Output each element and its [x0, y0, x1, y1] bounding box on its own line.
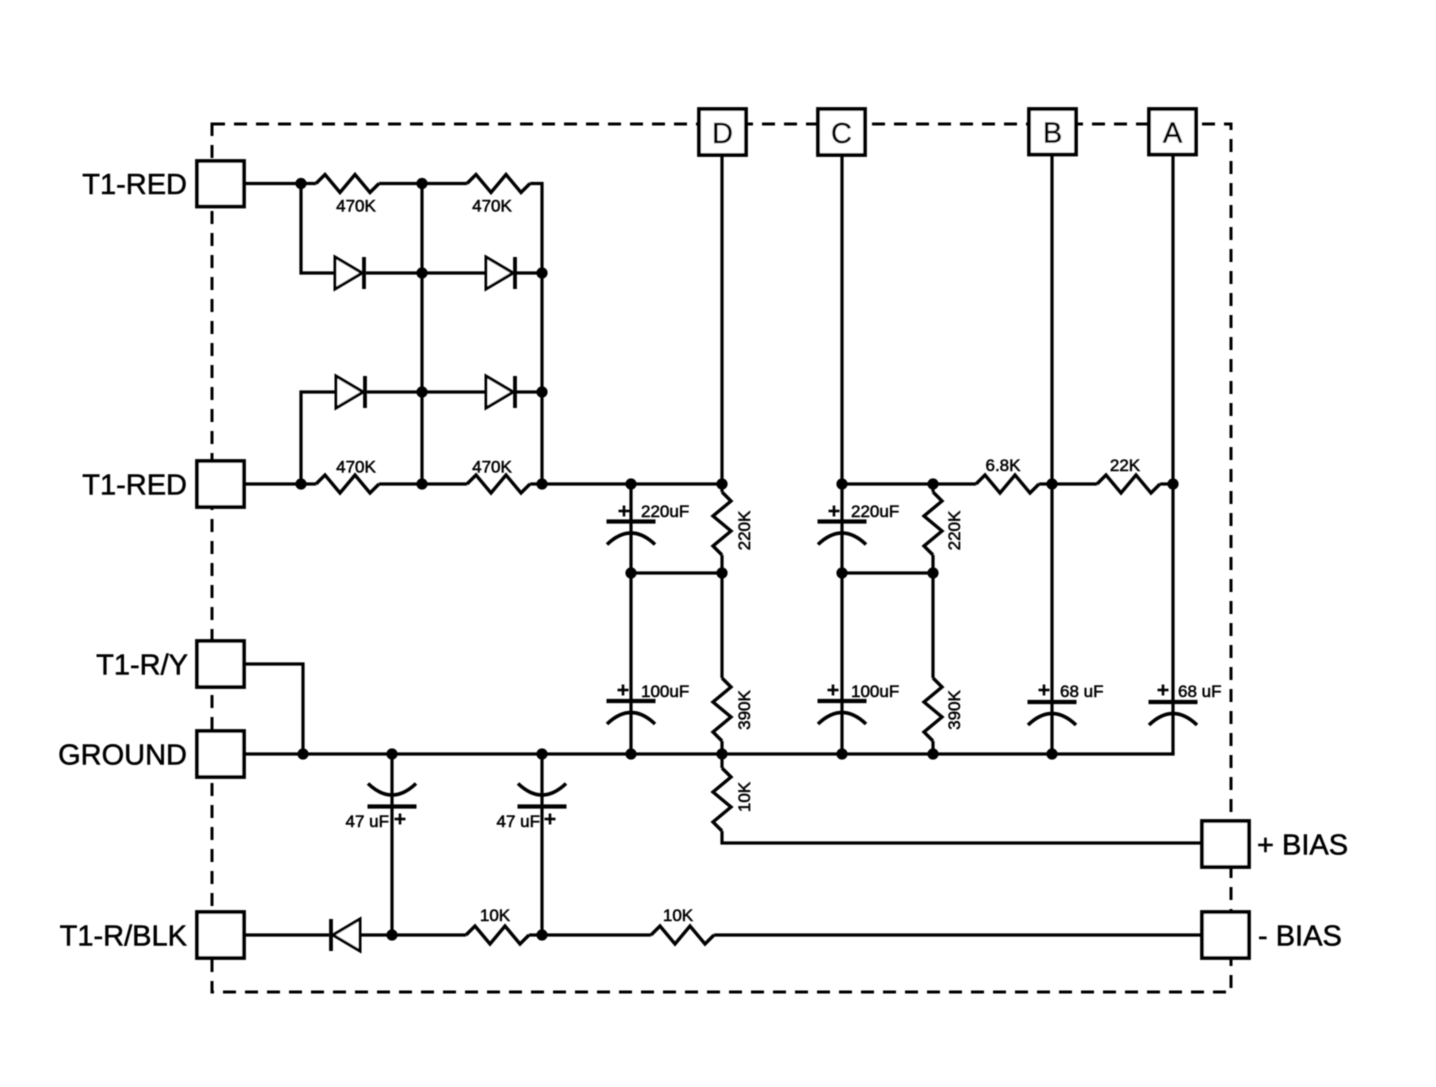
svg-text:47 uF: 47 uF [497, 812, 540, 831]
wire between 470K resistors top row [379, 182, 467, 185]
terminal box T1-RED 1 [197, 161, 244, 207]
svg-text:T1-RED: T1-RED [82, 470, 187, 502]
wire T1-R/BLK to diode [244, 933, 329, 936]
wire 10K top lead [720, 754, 723, 768]
capacitor C6 68uF [1149, 702, 1198, 725]
capacitor C3 100uF [607, 701, 656, 724]
terminal box - BIAS [1202, 912, 1249, 958]
wire diode row 2 middle [367, 390, 485, 393]
diode D2 [486, 257, 515, 289]
resistor R3 470K [316, 475, 379, 493]
wire 220K C column top [931, 484, 934, 492]
junction dots bias row [386, 929, 547, 940]
svg-text:D: D [712, 118, 733, 150]
wire node C to 220K [842, 482, 933, 485]
svg-text:B: B [1043, 118, 1062, 150]
svg-text:470K: 470K [472, 458, 512, 477]
terminal box B [1029, 109, 1076, 155]
svg-text:470K: 470K [336, 458, 376, 477]
wire 470K to right vertical bus [530, 184, 542, 485]
capacitor C8 47uF [518, 784, 567, 807]
diode D4 [486, 376, 515, 408]
svg-text:470K: 470K [472, 197, 512, 216]
wire 390K D bottom lead [720, 741, 723, 754]
terminal box T1-R/BLK [197, 912, 244, 958]
svg-text:220uF: 220uF [641, 502, 689, 521]
resistor R10 390K [924, 678, 942, 741]
svg-text:47 uF: 47 uF [346, 812, 389, 831]
diode D1 [335, 257, 364, 289]
svg-text:10K: 10K [480, 906, 511, 925]
wire 390K C bottom lead [931, 741, 934, 754]
svg-text:GROUND: GROUND [58, 740, 187, 772]
svg-text:- BIAS: - BIAS [1258, 921, 1342, 953]
capacitor C2 220uF [818, 522, 867, 545]
junction dots diode row 2 [416, 386, 547, 397]
plus sign C2 [829, 506, 840, 517]
terminal box D [699, 109, 746, 155]
capacitor C4 100uF [818, 701, 867, 724]
terminal box T1-R/Y [197, 641, 244, 687]
wire T1-R/Y to ground bus [244, 664, 303, 754]
svg-text:390K: 390K [735, 689, 754, 729]
wire C terminal vertical [840, 155, 843, 754]
dashed enclosure border [212, 124, 1231, 992]
wire 47uF 2 column [540, 754, 543, 935]
svg-text:22K: 22K [1110, 456, 1141, 475]
junction dots plate row [625, 567, 938, 578]
junction dots diode row 1 [416, 267, 547, 278]
plus sign C4 [828, 685, 839, 696]
svg-text:A: A [1163, 118, 1183, 150]
svg-text:470K: 470K [336, 197, 376, 216]
svg-text:100uF: 100uF [641, 682, 689, 701]
svg-text:220K: 220K [735, 510, 754, 550]
capacitor C1 220uF [607, 522, 656, 545]
junction dots top resistor row [295, 178, 427, 189]
svg-text:T1-RED: T1-RED [82, 169, 187, 201]
wire between 470K resistors row 2 [379, 482, 467, 485]
junction dots main row [295, 478, 1178, 489]
wire 470K row 2 to 220uF node [530, 482, 722, 485]
plus sign C3 [618, 685, 629, 696]
terminal box + BIAS [1202, 821, 1249, 867]
wire C 6.8K lead left [933, 482, 976, 485]
resistor R9 390K [713, 678, 731, 741]
plus sign C7 [395, 814, 406, 825]
wire 10K to 10K bottom row [529, 933, 651, 936]
wire node A1 to diode row 1 [301, 184, 335, 274]
plus sign C6 [1158, 685, 1169, 696]
terminal box T1-RED 2 [197, 461, 244, 507]
capacitor C5 68uF [1028, 702, 1077, 725]
wire bottom plates row D section [631, 571, 722, 574]
svg-text:100uF: 100uF [851, 682, 899, 701]
wire diode row 2 right [516, 390, 542, 393]
wire ground bus [244, 752, 1175, 755]
wire diode to 10K [360, 933, 466, 936]
diode D5 [331, 919, 360, 951]
wire 220K D bottom to node [720, 555, 723, 573]
resistor R13 10K [651, 926, 714, 944]
wire diode row 2 left corner [301, 392, 336, 484]
resistor R4 470K [467, 475, 530, 493]
svg-text:68 uF: 68 uF [1178, 682, 1221, 701]
svg-text:10K: 10K [663, 906, 694, 925]
plus sign C5 [1039, 685, 1050, 696]
terminal box C [818, 109, 865, 155]
wire B terminal vertical [1050, 155, 1053, 754]
resistor R8 22K [1097, 475, 1160, 493]
svg-text:6.8K: 6.8K [986, 456, 1022, 475]
svg-text:68 uF: 68 uF [1060, 682, 1103, 701]
terminal box A [1149, 109, 1196, 155]
resistor R11 10K [713, 768, 731, 831]
wire 390K D column [720, 573, 723, 678]
svg-text:C: C [831, 118, 852, 150]
svg-text:10K: 10K [735, 781, 754, 812]
wire 390K C column [931, 573, 934, 678]
resistor R5 220K [713, 492, 731, 555]
wire 10K to + BIAS [722, 831, 1202, 843]
wire A terminal vertical [1171, 155, 1174, 754]
svg-text:T1-R/BLK: T1-R/BLK [60, 921, 188, 953]
junction dots ground bus [297, 748, 1057, 759]
svg-text:T1-R/Y: T1-R/Y [96, 650, 188, 682]
wire middle vertical bus [420, 184, 423, 485]
capacitor C7 47uF [368, 784, 417, 807]
resistor R12 10K [466, 926, 529, 944]
wire 6.8K to B node [1039, 482, 1097, 485]
resistor R2 470K [467, 175, 530, 193]
wire T1-RED 2 to resistor [244, 482, 316, 485]
diode D3 [336, 376, 365, 408]
plus sign C8 [545, 814, 556, 825]
wire 10K to - BIAS [714, 933, 1202, 936]
plus sign C1 [619, 506, 630, 517]
svg-text:220K: 220K [945, 510, 964, 550]
wire 22K to A node [1160, 482, 1173, 485]
wire diode row 1 middle [366, 271, 485, 274]
wire 220K C bottom to node [931, 555, 934, 573]
svg-text:390K: 390K [945, 689, 964, 729]
wire diode row 1 right [516, 271, 542, 274]
svg-text:220uF: 220uF [851, 502, 899, 521]
resistor R1 470K [316, 175, 379, 193]
svg-text:+ BIAS: + BIAS [1257, 830, 1348, 862]
wire bottom plates row C section [842, 571, 933, 574]
terminal box GROUND [197, 731, 244, 777]
wire T1-RED top to node [244, 182, 316, 185]
wire 220uF D column [629, 484, 632, 754]
wire 47uF 1 column [390, 754, 393, 935]
resistor R7 6.8K [976, 475, 1039, 493]
wire D terminal vertical [720, 155, 723, 492]
resistor R6 220K [924, 492, 942, 555]
